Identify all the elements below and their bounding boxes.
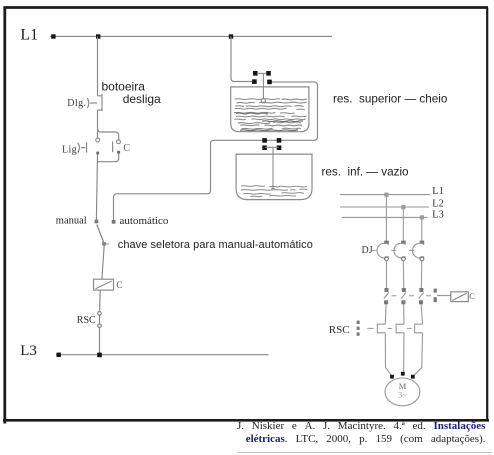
svg-text:automático: automático: [120, 215, 169, 227]
seal-in contact C: [113, 140, 121, 152]
svg-text:L3: L3: [432, 210, 444, 221]
wire phase line L3 right: [342, 216, 428, 218]
junction dot L1 left end: [51, 34, 55, 38]
wire coil to RSC contact: [99, 290, 102, 312]
svg-text:manual: manual: [56, 216, 87, 227]
wire L1 down to desliga button: [97, 36, 99, 95]
linkage dashes contactor: [392, 295, 432, 297]
wire to manual contact: [96, 154, 97, 220]
svg-text:3~: 3~: [398, 390, 407, 400]
overload contact RSC: [98, 312, 102, 328]
svg-text:L1: L1: [20, 26, 38, 43]
contactor C main contacts: [385, 288, 389, 292]
svg-text:L3: L3: [20, 343, 37, 359]
svg-text:Dlg.: Dlg.: [67, 98, 86, 109]
overload relay RSC heater elements: [377, 324, 385, 333]
contactor coil C: [94, 279, 114, 290]
wire RSC contact to L3: [99, 328, 101, 355]
wire upper reservoir to lower reservoir feed to automatico: [114, 82, 318, 220]
wires taps down to breaker DJ: [386, 195, 421, 241]
automatico contact tip: [112, 220, 116, 224]
wire phase line L2 right: [340, 206, 429, 208]
wire selector to coil C: [102, 245, 104, 279]
water waves lower tank: [241, 186, 307, 197]
tap dot L2: [401, 205, 405, 209]
electrode bar and rod lower reservoir: [265, 146, 279, 148]
svg-text:Lig.: Lig.: [62, 144, 80, 155]
tank res. inferior: [236, 154, 312, 200]
linkage dashes DJ: [372, 249, 414, 251]
wire phase line L1 right: [340, 194, 430, 196]
svg-text:C: C: [116, 280, 122, 290]
svg-text:RSC: RSC: [329, 324, 350, 336]
scan edge line: [238, 452, 492, 453]
wire L1 rail: [50, 35, 332, 37]
tap dot L1: [384, 193, 388, 197]
svg-text:RSC: RSC: [77, 315, 96, 326]
contactor actuator link squares: [434, 289, 437, 293]
junction dot L1 to reservoir feed: [229, 34, 233, 38]
svg-text:C: C: [123, 143, 130, 154]
wire L3 rail: [56, 354, 269, 356]
terminal dots lower reservoir: [262, 138, 267, 143]
manual contact tip: [95, 220, 99, 224]
tank res. superior: [231, 87, 309, 132]
tap dot L3: [420, 215, 424, 219]
svg-text:chave seletora para manual-aut: chave seletora para manual-automático: [118, 239, 313, 251]
wire branch to seal contact C (top): [98, 129, 119, 140]
wire L1 down to upper reservoir: [231, 36, 253, 81]
contactor element box C: [451, 292, 469, 302]
electrode bar and rod upper reservoir: [257, 72, 267, 74]
linkage dashes overload: [388, 327, 412, 329]
caption line 2: [246, 434, 486, 446]
wire between buttons: [97, 110, 99, 138]
motor terminal dots: [390, 375, 394, 379]
wires contactor to overload: [385, 304, 422, 324]
junction dot L3 left end: [57, 353, 61, 357]
svg-text:res. superior — cheio: res. superior — cheio: [333, 92, 448, 105]
svg-text:res. inf. — vazio: res. inf. — vazio: [322, 166, 410, 179]
water waves upper tank: [234, 99, 307, 129]
wires overload to motor: [385, 333, 422, 376]
terminal dots upper reservoir: [253, 71, 258, 76]
selector pivot: [102, 242, 106, 245]
junction dot L3 to coil branch: [97, 353, 102, 358]
caption line 1: [237, 421, 486, 433]
pushbutton Lig (NO liga): [78, 138, 100, 153]
circuit breaker DJ poles: [384, 241, 389, 244]
svg-text:C: C: [469, 291, 475, 301]
svg-text:DJ: DJ: [362, 245, 373, 256]
pushbutton Dlg (NC desliga): [87, 94, 102, 111]
selector switch blade: [97, 225, 104, 243]
junction dot L1 to buttons: [96, 34, 100, 38]
wire seal contact bottom branch: [98, 154, 119, 162]
svg-text:desliga: desliga: [123, 92, 161, 106]
svg-text:L1: L1: [432, 186, 444, 197]
svg-text:L2: L2: [432, 199, 444, 210]
overload relay linkage squares: [357, 321, 360, 336]
wires DJ to contactor: [386, 261, 421, 288]
motor M 3~: [385, 378, 420, 406]
